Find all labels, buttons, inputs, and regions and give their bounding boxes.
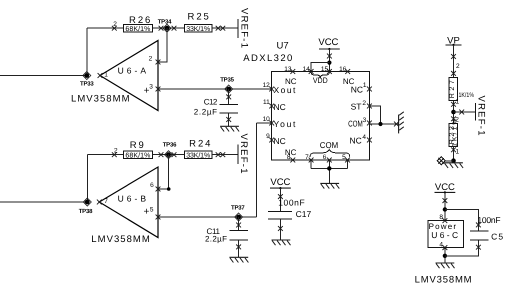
resistor R25 33K/1% xyxy=(184,12,212,34)
svg-text:9: 9 xyxy=(266,133,270,140)
svg-text:2.2µF: 2.2µF xyxy=(194,108,217,117)
svg-text:R26: R26 xyxy=(129,15,150,26)
svg-text:68K/1%: 68K/1% xyxy=(125,152,150,160)
wire pin5 to Yout xyxy=(158,216,256,218)
svg-text:TP38: TP38 xyxy=(79,208,93,215)
svg-text:COM: COM xyxy=(320,140,338,150)
svg-text:Xout: Xout xyxy=(274,85,297,95)
op-amp U6-B xyxy=(91,167,158,245)
svg-text:TP33: TP33 xyxy=(80,80,94,87)
pin 6 inverting input U6-B xyxy=(150,182,160,191)
wire pin2 to TP34 xyxy=(158,28,167,62)
wire R24 to VREF-1 xyxy=(212,154,238,156)
resistor R23 1K/1% xyxy=(449,116,460,146)
testpoint TP37 xyxy=(231,204,245,221)
wire ST to COM junction xyxy=(369,106,380,124)
svg-text:+: + xyxy=(144,86,150,97)
pin 15 VDD (top) xyxy=(321,66,332,74)
svg-text:16: 16 xyxy=(339,66,347,73)
pin 3 COM (right) xyxy=(348,117,372,128)
wire input X from left edge xyxy=(0,75,87,77)
supply VCC (above U6-C) xyxy=(435,182,456,193)
capacitor C17 100nF xyxy=(268,188,311,240)
svg-text:TP36: TP36 xyxy=(163,142,177,149)
junction at pin6 corner xyxy=(167,187,171,191)
svg-text:VREF-1: VREF-1 xyxy=(238,134,249,174)
wire VCC to VDD pins xyxy=(311,49,332,72)
svg-text:1: 1 xyxy=(363,82,367,89)
svg-text:COM: COM xyxy=(348,119,363,129)
pin 5 COM (bottom) xyxy=(342,154,350,162)
pin 6 COM (bottom) xyxy=(323,154,332,162)
svg-text:VCC: VCC xyxy=(435,182,455,193)
wire vertical Yout drop xyxy=(255,123,257,217)
capacitor C5 100nF xyxy=(470,211,503,249)
svg-text:TP35: TP35 xyxy=(220,77,234,84)
svg-text:VREF-1: VREF-1 xyxy=(476,96,487,136)
junction at ground xyxy=(451,158,456,163)
pin 11 NC (left) xyxy=(263,99,286,112)
resistor R9 68K/1% xyxy=(123,140,152,160)
svg-text:33K/1%: 33K/1% xyxy=(186,25,210,33)
wire junction to VREF-1 xyxy=(454,110,476,115)
svg-text:ADXL320: ADXL320 xyxy=(243,53,292,64)
svg-text:R24: R24 xyxy=(189,138,210,149)
svg-text:13: 13 xyxy=(284,66,292,73)
svg-text:LMV358MM: LMV358MM xyxy=(91,234,150,245)
svg-text:R25: R25 xyxy=(188,12,209,23)
svg-text:3: 3 xyxy=(149,83,153,90)
wire R23 to ground xyxy=(451,147,459,162)
pin 7 COM (bottom) xyxy=(305,154,313,162)
ground below U6-C xyxy=(436,263,455,268)
svg-text:NC: NC xyxy=(274,102,286,112)
pin 7 output U6-B xyxy=(97,198,108,205)
capacitor C11 2.2uF xyxy=(205,217,248,257)
junction VREF divider xyxy=(451,110,456,115)
svg-text:3: 3 xyxy=(363,117,367,124)
testpoint TP34 xyxy=(158,18,172,32)
svg-text:VREF-1: VREF-1 xyxy=(238,8,249,48)
svg-text:6: 6 xyxy=(150,182,154,189)
svg-text:68K/1%: 68K/1% xyxy=(125,25,150,33)
wire R9 to R24 through TP36 xyxy=(152,154,184,156)
pin 1 NC (right) xyxy=(351,82,372,94)
svg-text:R27: R27 xyxy=(449,80,456,98)
svg-text:VCC: VCC xyxy=(270,177,290,188)
wire to Yout pin xyxy=(256,122,271,124)
pin 16 NC (top) xyxy=(339,66,355,86)
testpoint TP36 xyxy=(163,142,177,159)
supply VREF-1 (top) xyxy=(238,8,250,48)
svg-text:33K/1%: 33K/1% xyxy=(186,152,210,160)
svg-text:8: 8 xyxy=(439,214,443,221)
svg-text:2: 2 xyxy=(114,147,118,154)
svg-text:VDD: VDD xyxy=(313,76,328,85)
svg-text:14: 14 xyxy=(303,66,311,73)
wire bottom COM pins to ground xyxy=(311,160,347,183)
svg-text:TP34: TP34 xyxy=(158,18,172,25)
ground below C11 xyxy=(229,257,248,262)
svg-text:2: 2 xyxy=(456,63,460,70)
pin 14 VDD (top) xyxy=(303,66,314,74)
svg-text:C5: C5 xyxy=(491,232,503,242)
svg-text:VCC: VCC xyxy=(318,37,338,48)
wire pin 4 to ground xyxy=(439,242,447,263)
svg-text:12: 12 xyxy=(263,82,271,89)
svg-text:15: 15 xyxy=(321,66,329,73)
diamond testpoint pad xyxy=(437,157,445,165)
supply VP xyxy=(446,36,462,47)
op-amp U6-A xyxy=(71,41,158,111)
supply VREF-1 (middle) xyxy=(238,134,249,174)
wire COM to ground (right) xyxy=(369,123,398,125)
wire to R26 xyxy=(87,27,124,29)
wire feedback vertical U6-B output to R9 xyxy=(86,155,88,202)
supply VCC (above C17) xyxy=(270,177,291,189)
pin 5 non-inverting input U6-B xyxy=(143,207,160,220)
ground below divider xyxy=(444,163,463,168)
pin 2 inverting input U6-A xyxy=(149,56,161,65)
wire VP to R27 xyxy=(451,45,460,78)
IC U7 ADXL320 xyxy=(243,41,369,160)
wire R27 to junction xyxy=(451,101,456,124)
wire C5 bottom branch xyxy=(445,240,479,256)
pin 8 NC (bottom) xyxy=(285,148,297,162)
wire R26 to R25 through TP34 xyxy=(152,27,184,29)
svg-text:TP37: TP37 xyxy=(231,204,245,211)
svg-text:4: 4 xyxy=(362,134,366,141)
ground below ADXL COM xyxy=(320,183,339,188)
svg-text:100nF: 100nF xyxy=(477,215,500,225)
svg-text:U7: U7 xyxy=(277,41,289,52)
svg-text:NC: NC xyxy=(274,136,286,146)
svg-text:10: 10 xyxy=(263,116,271,123)
svg-text:ST: ST xyxy=(351,102,362,112)
testpoint TP38 xyxy=(79,198,93,215)
svg-text:1: 1 xyxy=(456,149,460,156)
wire VCC to pin 8 xyxy=(439,192,447,223)
svg-text:2: 2 xyxy=(362,100,366,107)
resistor R24 33K/1% xyxy=(184,138,212,159)
wire pin3 to Xout xyxy=(158,88,272,90)
svg-text:6: 6 xyxy=(323,154,327,161)
svg-text:2: 2 xyxy=(113,21,117,28)
svg-text:LMV358MM: LMV358MM xyxy=(71,94,130,105)
wire input Y from left edge xyxy=(0,201,87,203)
svg-text:7: 7 xyxy=(305,154,309,161)
svg-text:7: 7 xyxy=(104,198,108,205)
testpoint TP33 xyxy=(80,72,94,88)
svg-text:11: 11 xyxy=(263,99,270,106)
supply VREF-1 (right) xyxy=(476,96,487,136)
resistor R27 1K/1% xyxy=(449,78,474,106)
svg-text:C17: C17 xyxy=(296,209,312,219)
capacitor C12 2.2uF xyxy=(194,89,238,126)
pin 2 ST (right) xyxy=(351,100,372,111)
svg-text:NC: NC xyxy=(285,148,297,157)
wire to diamond testpoint xyxy=(445,160,454,162)
wire R25 to VREF-1 xyxy=(212,27,238,29)
resistor R26 pin 2 marker xyxy=(112,26,117,31)
wire VCC branch to C5 xyxy=(445,210,479,212)
wire to R9 xyxy=(87,154,123,156)
testpoint TP35 xyxy=(220,77,234,94)
svg-text:VP: VP xyxy=(447,36,460,47)
junction ST/COM xyxy=(378,122,382,126)
svg-text:2.2µF: 2.2µF xyxy=(205,235,227,244)
svg-text:1K/1%: 1K/1% xyxy=(459,92,475,99)
supply VCC (above ADXL320) xyxy=(318,37,339,50)
pin 12 Xout (left) xyxy=(263,82,296,95)
ground below C12 xyxy=(220,126,239,131)
svg-text:2: 2 xyxy=(149,56,153,63)
resistor R9 pin 2 marker xyxy=(112,152,117,157)
svg-text:NC: NC xyxy=(350,136,362,146)
svg-text:NC: NC xyxy=(351,85,363,95)
svg-text:C12: C12 xyxy=(204,98,218,107)
pin 4 NC (right) xyxy=(350,134,372,145)
wire feedback vertical U6-A output to R26 xyxy=(86,28,88,75)
op-amp power block U6-C xyxy=(415,221,472,286)
pin 3 non-inverting input U6-A xyxy=(144,83,161,96)
pin 13 NC (top) xyxy=(284,66,297,86)
resistor R26 68K/1% xyxy=(123,15,152,33)
brace COM group xyxy=(310,140,350,157)
pin 1 output U6-A xyxy=(98,72,109,79)
wire pin6 to TP36 xyxy=(158,155,169,189)
svg-text:Yout: Yout xyxy=(274,119,297,129)
ground (right facing) at COM xyxy=(399,112,404,134)
pin 10 Yout (left) xyxy=(263,116,296,129)
svg-text:5: 5 xyxy=(342,154,346,161)
svg-text:100nF: 100nF xyxy=(278,197,305,207)
svg-text:LMV358MM: LMV358MM xyxy=(415,275,472,286)
svg-text:1: 1 xyxy=(104,72,108,79)
pin 9 NC (left) xyxy=(266,133,286,146)
ground below C17 xyxy=(272,240,291,245)
svg-text:5: 5 xyxy=(150,207,154,214)
svg-text:+: + xyxy=(143,207,149,218)
brace VDD group xyxy=(311,72,329,85)
